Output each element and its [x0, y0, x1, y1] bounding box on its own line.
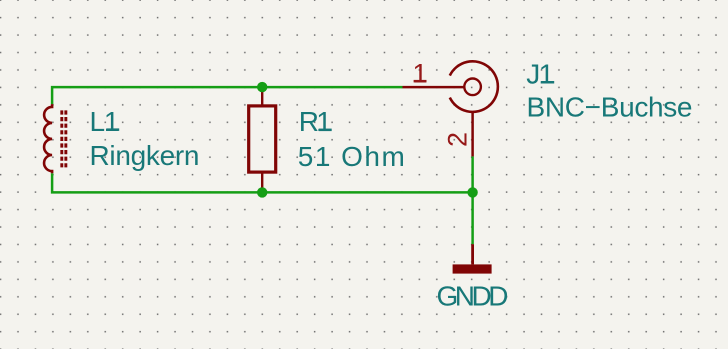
svg-text:L1: L1 [90, 106, 120, 137]
svg-text:GNDD: GNDD [437, 280, 509, 311]
junction right [467, 187, 477, 197]
resistor R1 body [249, 106, 276, 172]
svg-text:1: 1 [412, 58, 427, 88]
svg-text:Ringkern: Ringkern [90, 140, 200, 171]
wire right vertical [471, 156, 474, 244]
svg-text:BNC−Buchse: BNC−Buchse [527, 92, 693, 123]
inductor core dashes (Ringkern) [60, 110, 63, 169]
connector J1 BNC outer shield arc [450, 61, 498, 112]
pin 2 line [471, 112, 474, 156]
inductor L1 coil [44, 104, 52, 173]
connector J1 BNC inner circle [464, 79, 481, 96]
svg-text:R1: R1 [299, 106, 332, 137]
resistor pin bottom [261, 174, 263, 193]
ground GNDD bar [453, 264, 492, 273]
resistor pin top [261, 87, 263, 104]
wire top-left loop [52, 87, 402, 104]
ground GNDD stem [471, 244, 474, 264]
svg-text:2: 2 [442, 132, 472, 147]
svg-text:J1: J1 [526, 58, 554, 89]
junction bottom [257, 187, 267, 197]
pin 1 line [403, 86, 465, 89]
wire bottom loop [52, 173, 473, 192]
junction top [257, 82, 267, 92]
